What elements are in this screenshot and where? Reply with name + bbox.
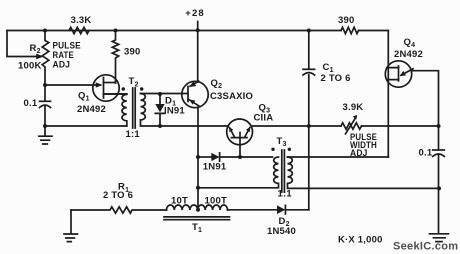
- svg-text:IN91: IN91: [164, 106, 185, 117]
- wire top supply rail: [7, 30, 388, 32]
- svg-text:0.1: 0.1: [419, 148, 433, 159]
- svg-text:2 TO 6: 2 TO 6: [321, 73, 351, 84]
- transistor Q2 C3SAXIO: [182, 81, 208, 107]
- node Q4 emitter on pot rail: [437, 124, 441, 128]
- T3 phasing dot right: [288, 148, 291, 151]
- transformer T3: [198, 157, 279, 188]
- resistor 390 (second): [341, 27, 359, 33]
- ground (bottom left): [64, 210, 78, 242]
- wire pot rail (Q3 to 3.9K to Q4 emitter): [253, 125, 439, 127]
- node 390 top on supply rail: [114, 29, 118, 33]
- node C1 top on supply rail: [307, 29, 311, 33]
- svg-text:T1: T1: [192, 222, 202, 234]
- ground (bottom right): [430, 234, 449, 242]
- node T1 winding tap: [196, 208, 200, 212]
- node D1 anode on T2-Q2 base wire: [158, 92, 162, 96]
- node T3 secondary right / 0.1 cap: [437, 186, 441, 190]
- wire left feedback loop to R2 wiper: [7, 31, 37, 57]
- node D1 cathode on rail: [158, 124, 162, 128]
- capacitor C1 2 TO 6: [308, 31, 310, 70]
- svg-text:1:1: 1:1: [126, 129, 141, 140]
- diode IN91 (second): [198, 156, 212, 158]
- svg-text:2N492: 2N492: [394, 49, 423, 60]
- svg-text:Q2: Q2: [211, 78, 223, 90]
- svg-text:C3SAXIO: C3SAXIO: [210, 91, 253, 102]
- node C1 bottom on pot rail: [307, 124, 311, 128]
- svg-text:CIIA: CIIA: [254, 112, 274, 123]
- transformer T2: [104, 94, 127, 126]
- node T3 secondary left / Q2 emitter drop: [196, 186, 200, 190]
- svg-text:100K: 100K: [18, 60, 42, 71]
- wire +28 drop to Q2 collector: [197, 22, 199, 82]
- svg-text:T3: T3: [277, 136, 287, 148]
- node 0.1 cap to ground rail: [43, 124, 47, 128]
- svg-text:10T: 10T: [171, 195, 188, 206]
- svg-text:3.9K: 3.9K: [343, 102, 364, 113]
- svg-text:Q1: Q1: [78, 90, 90, 102]
- ground (left mid): [39, 126, 52, 144]
- wire R2 wiper node to Q1 emitter: [45, 84, 96, 86]
- wire T1 secondary to D2: [228, 209, 278, 211]
- svg-text:R2: R2: [30, 43, 41, 55]
- potentiometer 3.9K: [341, 123, 362, 129]
- svg-text:+28: +28: [185, 8, 204, 19]
- node Q3 base / IN91 cathode / T3 primary: [238, 155, 242, 159]
- svg-text:Q4: Q4: [404, 37, 416, 49]
- resistor R1 2 TO 6: [71, 207, 167, 213]
- capacitor 0.1 (left): [44, 85, 46, 101]
- node R2 top on supply rail: [43, 29, 47, 33]
- resistor 390 (first): [112, 31, 118, 84]
- transistor Q3 CIIA: [227, 119, 253, 145]
- transistor Q4 2N492: [387, 31, 389, 158]
- T2 phasing dot right: [140, 87, 143, 90]
- svg-text:1N540: 1N540: [267, 226, 296, 237]
- svg-text:1N91: 1N91: [203, 162, 227, 173]
- node R2 wiper / Q1 emitter / 0.1 cap: [43, 83, 47, 87]
- transformer T1 tapped winding: [167, 205, 228, 210]
- diode D2 1N540: [277, 205, 285, 214]
- resistor R2 potentiometer 100K: [42, 31, 49, 86]
- svg-text:3.3K: 3.3K: [71, 15, 92, 26]
- svg-text:0.1: 0.1: [24, 98, 38, 109]
- wire Q2 emitter drop: [197, 107, 199, 210]
- transistor Q1 2N492: [93, 75, 119, 101]
- svg-text:390: 390: [338, 15, 354, 26]
- svg-text:2N492: 2N492: [77, 104, 106, 115]
- diode D1 IN91: [159, 94, 161, 104]
- capacitor 0.1 (right): [438, 126, 440, 150]
- node Q2 emitter / IN91 anode: [196, 155, 200, 159]
- R2 wiper arrowhead: [36, 54, 43, 60]
- resistor 3.3K: [69, 27, 89, 33]
- T3 phasing dot left: [271, 148, 274, 151]
- svg-text:390: 390: [124, 46, 140, 57]
- T2 phasing dot left: [122, 87, 125, 90]
- svg-text:2 TO 6: 2 TO 6: [103, 190, 133, 201]
- node +28 on supply rail: [196, 28, 200, 32]
- svg-text:1:1: 1:1: [278, 189, 293, 200]
- svg-text:100T: 100T: [205, 195, 227, 206]
- wire ground rail (left of T2): [45, 125, 127, 127]
- svg-text:SeekIC.com: SeekIC.com: [393, 241, 458, 253]
- svg-text:ADJ: ADJ: [53, 60, 71, 71]
- svg-text:K·X 1,000: K·X 1,000: [338, 234, 383, 245]
- svg-text:T2: T2: [129, 76, 139, 88]
